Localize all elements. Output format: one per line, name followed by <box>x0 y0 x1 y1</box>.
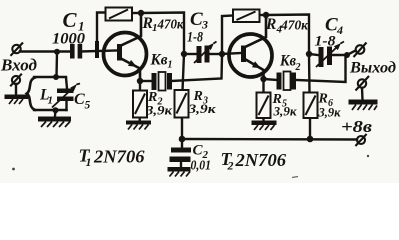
svg-text:Кв: Кв <box>279 53 296 70</box>
svg-text:1: 1 <box>168 60 173 71</box>
svg-text:3,9к: 3,9к <box>145 103 173 118</box>
svg-text:С: С <box>63 8 78 32</box>
svg-text:470к: 470к <box>157 17 185 32</box>
svg-text:2: 2 <box>227 159 234 173</box>
svg-text:4: 4 <box>336 23 343 37</box>
svg-text:2N706: 2N706 <box>234 150 286 170</box>
svg-text:Кв: Кв <box>150 52 168 69</box>
svg-text:1-8: 1-8 <box>187 30 204 46</box>
svg-text:3,9к: 3,9к <box>272 104 296 119</box>
svg-text:С: С <box>74 91 85 108</box>
svg-text:1: 1 <box>86 155 92 169</box>
svg-text:3,9к: 3,9к <box>318 105 341 120</box>
svg-text:1-8: 1-8 <box>315 34 337 50</box>
svg-text:3,9к: 3,9к <box>187 101 216 116</box>
svg-text:Выход: Выход <box>349 60 396 77</box>
svg-text:R: R <box>265 16 276 33</box>
svg-text:1000: 1000 <box>52 31 85 48</box>
svg-text:Вход: Вход <box>0 56 38 75</box>
svg-text:2: 2 <box>295 62 301 73</box>
svg-text:0,01: 0,01 <box>191 158 212 173</box>
svg-text:1: 1 <box>48 95 54 107</box>
svg-text:5: 5 <box>85 100 91 112</box>
svg-text:+8в: +8в <box>341 117 373 136</box>
svg-text:2N706: 2N706 <box>93 147 145 167</box>
svg-text:470к: 470к <box>280 18 309 33</box>
